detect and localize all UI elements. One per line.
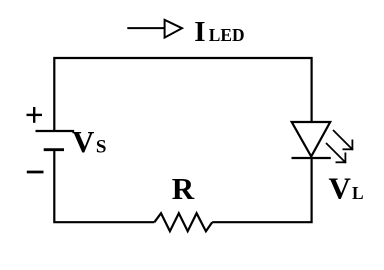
svg-text:LED: LED: [209, 25, 245, 45]
battery VS negative plate: [44, 148, 64, 151]
resistor R: [154, 213, 212, 231]
svg-text:L: L: [352, 183, 364, 203]
label VL: [329, 171, 364, 206]
current arrow I_LED: [127, 20, 182, 38]
svg-text:V: V: [72, 124, 95, 159]
LED emission arrow 2: [326, 143, 346, 163]
svg-text:R: R: [172, 171, 195, 206]
label VS: [72, 124, 106, 159]
svg-text:I: I: [194, 16, 205, 48]
battery positive sign +: [27, 107, 43, 123]
LED cathode bar: [292, 157, 331, 159]
svg-text:V: V: [329, 171, 352, 206]
LED diode triangle (anode): [292, 122, 331, 157]
wire left lower (battery - to bottom rail): [54, 150, 154, 222]
LED emission arrow 1: [333, 130, 353, 150]
label I_LED: [194, 16, 244, 48]
svg-text:S: S: [96, 136, 107, 157]
battery negative sign -: [27, 171, 44, 174]
battery VS positive plate: [36, 130, 75, 132]
wire right lower (LED cathode to bottom rail): [212, 158, 311, 222]
wire top (node between battery + and LED anode): [54, 58, 311, 131]
